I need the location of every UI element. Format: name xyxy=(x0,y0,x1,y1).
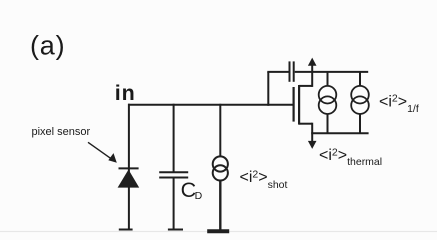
photodiode anode triangle xyxy=(118,170,140,188)
arrowhead: thermal current down xyxy=(308,141,317,149)
svg-text:<i2>thermal: <i2>thermal xyxy=(319,146,382,168)
ground bar thick: shot-noise branch xyxy=(207,229,229,233)
wire: thermal down-arrow shaft xyxy=(311,133,313,143)
wire: 1/f source lower stub xyxy=(327,114,329,134)
annotation arrow: pixel sensor pointer xyxy=(88,142,113,159)
wire: bottom rail xyxy=(311,132,368,134)
wire: thermal source lower stub xyxy=(359,114,361,134)
svg-text:in: in xyxy=(115,81,136,105)
current source I_th upper circle xyxy=(351,86,369,104)
wire: drain lead xyxy=(299,85,312,87)
capacitor C_D top plate xyxy=(159,171,188,173)
feedback capacitor left plate xyxy=(289,61,291,81)
svg-text:pixel sensor: pixel sensor xyxy=(32,126,91,138)
feedback capacitor right plate xyxy=(293,61,295,81)
faint scan line bottom xyxy=(0,231,437,233)
wire: shot-noise source lower vertical xyxy=(219,180,221,230)
wire: feedback riser to capacitor xyxy=(267,72,269,106)
wire: capacitor left lead xyxy=(267,71,288,73)
current source I_shot upper circle xyxy=(213,156,228,171)
svg-text:(a): (a) xyxy=(30,31,65,61)
arrowhead: pixel sensor pointer xyxy=(108,153,117,163)
capacitor C_D bottom plate xyxy=(159,177,188,179)
wire: drain up-arrow shaft xyxy=(311,65,313,87)
svg-text:<i2>1/f: <i2>1/f xyxy=(379,93,419,115)
wire: C_D branch upper vertical xyxy=(173,104,175,172)
svg-text:<i2>shot: <i2>shot xyxy=(240,168,288,190)
wire: photodiode branch vertical xyxy=(128,104,130,230)
wire: main input net horizontal xyxy=(128,104,293,106)
current source I_th lower circle xyxy=(351,96,369,114)
wire: top rail xyxy=(295,71,369,73)
wire: thermal source upper stub xyxy=(359,72,361,86)
ground bar: C_D branch xyxy=(168,229,183,231)
arrowhead: drain current up xyxy=(308,58,317,66)
photodiode cathode bar xyxy=(119,167,139,169)
svg-text:CD: CD xyxy=(181,178,203,202)
transistor M1 channel bar xyxy=(298,85,300,125)
wire: source lead xyxy=(299,123,312,125)
transistor M1 gate bar xyxy=(293,87,295,122)
wire: 1/f source upper stub xyxy=(327,72,329,86)
current source I_shot lower circle xyxy=(213,165,228,180)
ground bar: photodiode branch xyxy=(119,229,133,231)
current source I_1/f upper circle xyxy=(319,86,337,104)
current source I_1/f lower circle xyxy=(319,96,337,114)
wire: C_D branch lower vertical xyxy=(173,178,175,230)
wire: source drop xyxy=(311,123,313,134)
wire: shot-noise source upper vertical xyxy=(219,104,221,157)
